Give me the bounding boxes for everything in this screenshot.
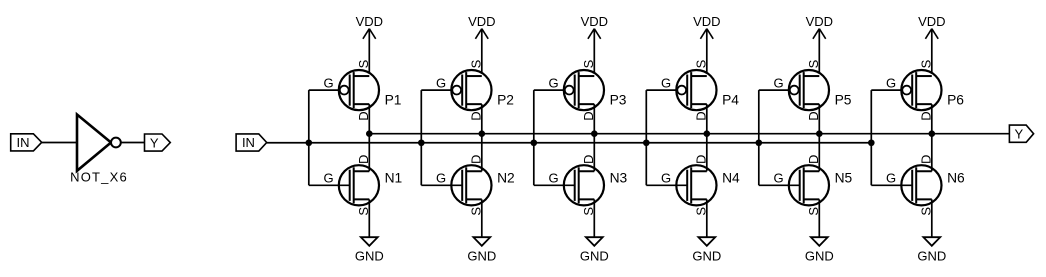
wire drain column 2 <box>481 104 483 171</box>
junction drain column 4 on output rail <box>704 130 711 137</box>
svg-text:G: G <box>661 170 671 185</box>
svg-text:G: G <box>436 75 446 90</box>
nmos transistor N3 <box>548 155 627 216</box>
svg-text:G: G <box>773 170 783 185</box>
svg-text:GND: GND <box>467 249 496 264</box>
wire drain column 4 <box>706 104 708 171</box>
svg-text:GND: GND <box>917 249 946 264</box>
junction gate column 2 on IN rail <box>418 139 425 146</box>
wire gate column 3 <box>534 90 575 185</box>
wire drain column 3 <box>593 104 595 171</box>
svg-text:P1: P1 <box>385 93 402 108</box>
junction drain column 2 on output rail <box>479 130 486 137</box>
pmos transistor P6 <box>886 59 964 120</box>
svg-text:IN: IN <box>17 135 30 150</box>
VDD power symbol (column 4) <box>693 14 720 76</box>
svg-text:S: S <box>918 59 933 68</box>
svg-text:GND: GND <box>692 249 721 264</box>
wire output rail (Y net) <box>369 133 1009 135</box>
junction gate column 5 on IN rail <box>756 139 763 146</box>
GND power symbol (column 2) <box>467 199 496 263</box>
junction gate column 1 on IN rail <box>306 139 313 146</box>
junction drain column 5 on output rail <box>816 130 823 137</box>
svg-text:G: G <box>323 170 333 185</box>
svg-text:N2: N2 <box>497 170 515 185</box>
svg-text:NOT_X6: NOT_X6 <box>70 169 128 184</box>
svg-text:VDD: VDD <box>918 14 945 29</box>
svg-text:G: G <box>548 170 558 185</box>
VDD power symbol (column 5) <box>806 14 833 76</box>
svg-text:IN: IN <box>242 135 255 150</box>
GND power symbol (column 1) <box>355 199 384 263</box>
GND power symbol (column 5) <box>805 199 834 263</box>
nmos transistor N5 <box>773 155 852 216</box>
port IN (inverter input) <box>11 134 42 151</box>
svg-text:P4: P4 <box>722 93 739 108</box>
svg-text:P3: P3 <box>610 93 627 108</box>
port IN (transistor schematic input) <box>236 134 267 151</box>
svg-text:N3: N3 <box>610 170 628 185</box>
svg-text:G: G <box>548 75 558 90</box>
svg-text:Y: Y <box>150 135 159 150</box>
svg-text:N5: N5 <box>835 170 853 185</box>
wire gate column 6 <box>871 90 912 185</box>
svg-text:S: S <box>693 59 708 68</box>
junction gate column 6 on IN rail <box>868 139 875 146</box>
junction drain column 1 on output rail <box>366 130 373 137</box>
junction drain column 3 on output rail <box>591 130 598 137</box>
svg-text:VDD: VDD <box>693 14 720 29</box>
inverter U1 triangle NOT_X6 <box>70 115 128 185</box>
wire IN to inverter <box>42 142 77 144</box>
GND power symbol (column 3) <box>580 199 609 263</box>
wire gate column 1 <box>309 90 350 185</box>
svg-text:G: G <box>436 170 446 185</box>
svg-text:G: G <box>661 75 671 90</box>
wire bubble to Y <box>121 142 145 144</box>
svg-text:N1: N1 <box>385 170 403 185</box>
svg-text:GND: GND <box>355 249 384 264</box>
VDD power symbol (column 2) <box>468 14 495 76</box>
svg-text:S: S <box>581 59 596 68</box>
junction drain column 6 on output rail <box>929 130 936 137</box>
nmos transistor N2 <box>436 155 515 216</box>
pmos transistor P3 <box>548 59 626 120</box>
VDD power symbol (column 1) <box>356 14 383 76</box>
GND power symbol (column 4) <box>692 199 721 263</box>
svg-text:N6: N6 <box>947 170 965 185</box>
junction gate column 3 on IN rail <box>531 139 538 146</box>
GND power symbol (column 6) <box>917 199 946 263</box>
svg-text:G: G <box>773 75 783 90</box>
nmos transistor N6 <box>886 155 965 216</box>
wire drain column 5 <box>818 104 820 171</box>
svg-text:VDD: VDD <box>581 14 608 29</box>
inverter output bubble <box>111 138 121 148</box>
wire drain column 1 <box>368 104 370 171</box>
svg-text:VDD: VDD <box>806 14 833 29</box>
pmos transistor P2 <box>436 59 514 120</box>
junction gate column 4 on IN rail <box>643 139 650 146</box>
pmos transistor P5 <box>773 59 851 120</box>
VDD power symbol (column 3) <box>581 14 608 76</box>
nmos transistor N1 <box>323 155 402 216</box>
svg-text:Y: Y <box>1014 126 1023 141</box>
wire gate column 2 <box>421 90 462 185</box>
svg-text:P6: P6 <box>947 93 964 108</box>
svg-text:S: S <box>356 59 371 68</box>
svg-text:VDD: VDD <box>468 14 495 29</box>
nmos transistor N4 <box>661 155 740 216</box>
VDD power symbol (column 6) <box>918 14 945 76</box>
pmos transistor P4 <box>661 59 739 120</box>
svg-text:S: S <box>806 59 821 68</box>
svg-text:VDD: VDD <box>356 14 383 29</box>
svg-text:G: G <box>323 75 333 90</box>
pmos transistor P1 <box>323 59 401 120</box>
port Y (transistor schematic output) <box>1009 125 1033 142</box>
svg-text:GND: GND <box>580 249 609 264</box>
wire gate column 5 <box>759 90 800 185</box>
wire IN rail (input net) <box>267 142 872 144</box>
svg-text:G: G <box>886 75 896 90</box>
svg-text:P5: P5 <box>835 93 852 108</box>
wire drain column 6 <box>931 104 933 171</box>
svg-text:S: S <box>468 59 483 68</box>
svg-text:P2: P2 <box>497 93 514 108</box>
svg-text:G: G <box>886 170 896 185</box>
port Y (inverter output) <box>145 134 171 151</box>
svg-text:GND: GND <box>805 249 834 264</box>
svg-text:N4: N4 <box>722 170 740 185</box>
wire gate column 4 <box>646 90 687 185</box>
